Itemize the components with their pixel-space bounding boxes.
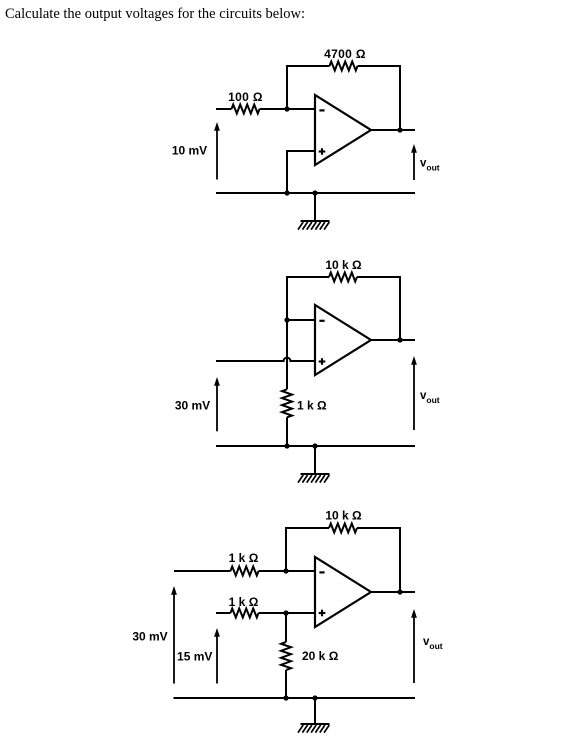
wire: C3 non-inverting input right segment [259,612,316,614]
wire: C3 ground rail [174,697,416,699]
wire: C3 non-inverting input left segment [216,612,231,614]
node: C3 output junction [397,589,402,594]
arrow v_out (C2) [411,356,417,430]
op-amp U2 non-inverting pin mark [319,358,326,365]
ground (C1) [298,221,330,230]
wire: C3 feedback left [286,528,329,571]
wire: C2 inverting input stub [287,319,315,321]
node: C1 output junction [397,127,402,132]
ground (C3) [298,724,330,733]
svg-text:vout: vout [420,390,440,405]
label 30 mV (C2) [175,399,210,413]
wire: C1 input left segment [216,108,232,110]
wire: C3 from non-inverting node down to 20 kΩ [285,613,287,642]
label v_out (C2) [420,390,440,405]
node: C2 output junction [397,337,402,342]
resistor 20 kΩ (C3 shunt) [281,642,291,670]
svg-text:1 k Ω: 1 k Ω [229,551,259,565]
wire: C1 output [371,129,415,131]
ground (C2) [298,474,330,483]
svg-text:10 k Ω: 10 k Ω [325,509,362,523]
resistor 4700 Ω (C1 feedback) [330,62,358,71]
label 1 kΩ (C2) [297,399,327,413]
wire: C1 feedback left (inverting node up and over) [287,66,330,109]
wire: C2 ground stem [314,446,316,474]
node: C2 rail junction at ground stem [312,443,317,448]
source 15 mV arrow (C3) [214,628,220,684]
node: C3 rail junction at ground stem [312,695,317,700]
label 30 mV (C3) [132,630,167,644]
wire: C3 output [371,591,415,593]
label 10 mV [172,144,207,158]
wire: C2 feedback left and down the inverting branch [287,277,329,389]
node: C3 non-inverting input junction [283,610,288,615]
wire: C2 non-inverting input with hop over inverting branch [216,358,315,361]
svg-text:100 Ω: 100 Ω [228,90,263,104]
svg-text:10 mV: 10 mV [172,144,207,158]
svg-text:vout: vout [420,158,440,173]
wire: C1 non-inverting input stub to ground rail [287,151,315,193]
source 30 mV arrow (C2) [214,377,220,431]
wire: C1 input right segment to inverting input [260,108,316,110]
wire: C1 feedback right down to output node [358,66,401,130]
wire: C2 shunt resistor to rail [286,417,288,446]
arrow v_out (C1) [411,144,417,180]
resistor 1 kΩ (C3 inverting input) [231,567,259,576]
svg-text:1 k Ω: 1 k Ω [229,595,259,609]
wire: C3 inverting input left segment [174,570,231,572]
svg-text:1 k Ω: 1 k Ω [297,399,327,413]
node: C1 inverting input junction [284,106,289,111]
svg-text:30 mV: 30 mV [175,399,210,413]
wire: C3 shunt resistor to rail [285,670,287,698]
label 10 kΩ (C2) [325,258,362,272]
svg-text:30 mV: 30 mV [132,630,167,644]
label v_out (C1) [420,158,440,173]
resistor 1 kΩ (C3 non-inverting input) [231,609,259,618]
resistor 10 kΩ (C2 feedback) [329,273,357,282]
wire: C1 ground stem [314,193,316,221]
label v_out (C3) [423,636,443,651]
op-amp U2 [315,305,371,375]
label 15 mV (C3) [177,650,212,664]
circuit 1: inverting amplifier [172,47,440,230]
op-amp U1 [315,95,371,165]
op-amp U2 inverting pin mark [319,320,324,322]
svg-text:4700 Ω: 4700 Ω [324,47,366,61]
label 1 kΩ (C3 inverting input) [229,551,259,565]
node: C2 inverting branch junction [284,317,289,322]
op-amp U3 [315,557,371,627]
resistor 100 Ω (C1 input) [232,105,260,114]
op-amp U3 inverting pin mark [319,571,324,573]
svg-text:15 mV: 15 mV [177,650,212,664]
wire: C2 output [371,339,415,341]
node: C1 rail junction at ground stem [312,190,317,195]
resistor 1 kΩ (C2 shunt) [282,389,292,417]
source 30 mV arrow (C3) [171,586,177,684]
node: C1 rail junction at source return [284,190,289,195]
node: C3 inverting input junction [283,568,288,573]
label 10 kΩ (C3) [325,509,362,523]
label 100 Ω [228,90,263,104]
problem statement text [5,6,305,23]
source 10 mV arrow [214,122,220,180]
op-amp U1 non-inverting pin mark [319,148,326,155]
resistor 10 kΩ (C3 feedback) [329,524,357,533]
svg-text:10 k Ω: 10 k Ω [325,258,362,272]
wire: C3 feedback right down to output node [357,528,400,592]
wire: C2 ground rail [216,445,415,447]
label 20 kΩ (C3) [302,649,339,663]
svg-text:vout: vout [423,636,443,651]
wire: C3 ground stem [314,698,316,724]
label 4700 Ω [324,47,366,61]
node: C3 rail junction at shunt [283,695,288,700]
circuit 2: non-inverting amplifier [175,258,440,483]
svg-text:20 k Ω: 20 k Ω [302,649,339,663]
op-amp U3 non-inverting pin mark [319,610,326,617]
arrow v_out (C3) [411,609,417,683]
wire: C1 ground rail [216,192,415,194]
node: C2 rail junction at shunt [284,443,289,448]
op-amp U1 inverting pin mark [319,109,324,111]
wire: C3 inverting input right segment [259,570,316,572]
circuit 3: summing/difference amplifier [132,509,442,733]
wire: C2 feedback right down to output node [357,277,400,340]
label 1 kΩ (C3 non-inverting input) [229,595,259,609]
